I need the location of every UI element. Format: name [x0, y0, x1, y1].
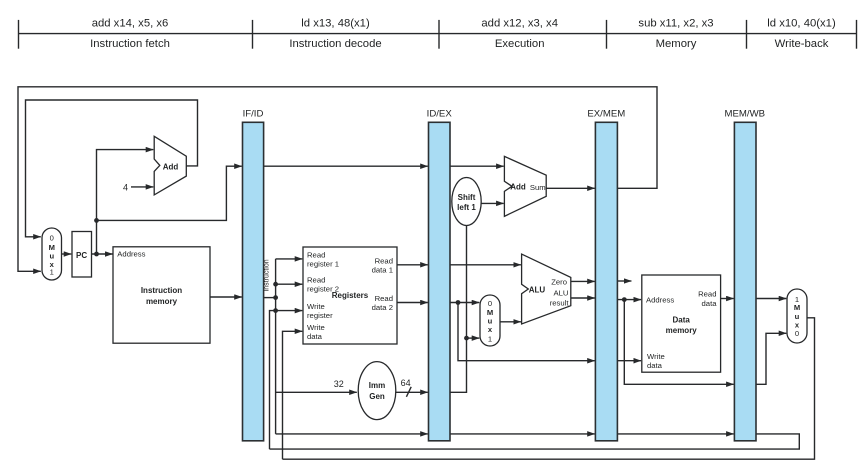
- wire instruction pass-along to ID/EX: [276, 433, 428, 435]
- svg-text:Zero: Zero: [551, 277, 567, 286]
- svg-text:Address: Address: [646, 296, 674, 305]
- svg-text:ld x13, 48(x1): ld x13, 48(x1): [301, 18, 370, 30]
- svg-text:memory: memory: [146, 297, 178, 306]
- wire Read data 2 down to EX/MEM write data: [458, 303, 595, 361]
- pipeline register EX/MEM: [587, 109, 625, 441]
- wire WB mux output bottom loop: [283, 318, 815, 459]
- svg-text:Write: Write: [647, 352, 665, 361]
- svg-text:64: 64: [401, 378, 411, 388]
- wire Read data 1 to ALU: [450, 264, 521, 266]
- svg-text:Add: Add: [163, 162, 179, 171]
- shift left 1 oval: [452, 178, 481, 226]
- junction node instr-rr2: [273, 282, 278, 287]
- wire mux to PC: [62, 253, 72, 255]
- adder Add (branch target): [504, 156, 546, 216]
- svg-text:sub x11, x2, x3: sub x11, x2, x3: [638, 18, 713, 30]
- wire pass-along ID/EX to EX/MEM: [450, 433, 595, 435]
- wire instruction memory to IF/ID: [210, 296, 242, 298]
- svg-text:Instruction: Instruction: [141, 286, 182, 295]
- pipeline register IF/ID: [243, 109, 264, 441]
- wire branch Add Sum to EX/MEM: [546, 187, 595, 189]
- header stage labels: [90, 38, 829, 50]
- svg-text:data: data: [702, 299, 718, 308]
- svg-text:Read: Read: [307, 250, 325, 259]
- wire ALU result to data memory address: [617, 299, 641, 301]
- mux M2 (ALU operand select): [480, 295, 500, 346]
- svg-text:0: 0: [795, 329, 799, 338]
- svg-text:4: 4: [123, 183, 128, 193]
- svg-text:data 2: data 2: [372, 303, 393, 312]
- junction node instr-wreg: [273, 308, 278, 313]
- wire PC+4 loop (Add output to PC mux input 0): [26, 100, 198, 237]
- wire write data EX/MEM to data memory: [617, 360, 641, 362]
- header instruction labels: [92, 18, 836, 30]
- svg-text:Read: Read: [307, 276, 325, 285]
- wire PC row IF/ID to ID/EX: [264, 165, 428, 167]
- svg-text:Gen: Gen: [369, 392, 385, 401]
- instruction memory box: [113, 247, 210, 343]
- wire ALU result bypass to MEM/WB: [624, 300, 733, 385]
- wire Read data 2 to ALU mux input 0: [450, 302, 479, 304]
- svg-text:add x14, x5, x6: add x14, x5, x6: [92, 18, 169, 30]
- wire data memory read data to MEM/WB: [721, 298, 734, 300]
- wire branch-target feedback (EX/MEM to PC mux input 1): [18, 87, 657, 271]
- wire immediate to ALU mux input 1: [467, 337, 480, 339]
- svg-text:ALU: ALU: [529, 286, 546, 295]
- svg-text:data: data: [647, 361, 663, 370]
- wire PC vertical to Add input: [97, 150, 154, 254]
- wire to Read register 2: [276, 283, 303, 285]
- svg-text:Instruction fetch: Instruction fetch: [90, 38, 170, 50]
- width slash 64: [406, 387, 411, 397]
- svg-text:Write-back: Write-back: [775, 38, 829, 50]
- svg-text:1: 1: [50, 267, 54, 276]
- registers box: [303, 247, 397, 344]
- svg-text:result: result: [550, 299, 570, 308]
- svg-text:Execution: Execution: [495, 38, 545, 50]
- junction node rd2-split: [456, 300, 461, 305]
- wire pass-along EX/MEM to MEM/WB: [617, 433, 733, 435]
- svg-text:left 1: left 1: [457, 203, 476, 212]
- svg-text:ALU: ALU: [554, 289, 569, 298]
- wire register number write-back bottom loop: [270, 434, 800, 449]
- svg-text:Address: Address: [117, 250, 145, 259]
- wire ALU result to EX/MEM: [571, 297, 595, 299]
- pipeline register MEM/WB: [725, 109, 766, 441]
- mux M1 (PC select): [42, 228, 62, 280]
- svg-text:ld x10, 40(x1): ld x10, 40(x1): [767, 18, 836, 30]
- wire PC to IF/ID: [97, 166, 242, 220]
- ALU: [522, 254, 571, 324]
- svg-text:Read: Read: [375, 256, 393, 265]
- wire Read data 1 to ID/EX: [397, 264, 428, 266]
- wire constant 4 to Add: [131, 186, 153, 188]
- svg-text:IF/ID: IF/ID: [243, 109, 264, 120]
- wire ALU zero to EX/MEM: [571, 280, 595, 282]
- adder Add (PC+4): [154, 136, 186, 195]
- svg-text:Add: Add: [510, 183, 526, 192]
- svg-text:Read: Read: [698, 290, 716, 299]
- svg-text:ID/EX: ID/EX: [427, 109, 453, 120]
- junction node instr-main: [273, 295, 278, 300]
- register PC: [72, 232, 92, 278]
- wire to Read register 1: [276, 258, 303, 260]
- data memory box: [642, 275, 721, 372]
- wire immediate up to shift and mux: [450, 226, 467, 393]
- wire instruction to Imm Gen: [276, 391, 357, 393]
- svg-text:MEM/WB: MEM/WB: [725, 109, 766, 120]
- svg-text:Imm: Imm: [369, 381, 385, 390]
- svg-text:add x12, x3, x4: add x12, x3, x4: [481, 18, 558, 30]
- wire read data to WB mux input 1: [756, 298, 786, 300]
- wire write data from write-back mux: [283, 331, 303, 459]
- wire Read data 2 to ID/EX: [397, 302, 428, 304]
- wire PC to instruction memory: [92, 253, 113, 255]
- svg-text:Instruction: Instruction: [264, 259, 271, 291]
- wire shift left 1 to branch Add: [481, 202, 504, 204]
- svg-text:Write: Write: [307, 302, 325, 311]
- svg-text:register: register: [307, 311, 333, 320]
- svg-text:1: 1: [488, 335, 492, 344]
- junction node PC-out: [94, 252, 99, 257]
- svg-text:PC: PC: [76, 251, 87, 260]
- svg-text:0: 0: [50, 234, 54, 243]
- wire zero stub out of EX/MEM: [617, 280, 631, 282]
- svg-text:Sum: Sum: [530, 183, 546, 192]
- wire ALU result to WB mux input 0: [756, 333, 786, 384]
- junction node imm-mux: [464, 336, 469, 341]
- svg-text:32: 32: [334, 379, 344, 389]
- wire PC row ID/EX to branch Add: [450, 165, 504, 167]
- svg-text:data 1: data 1: [372, 265, 393, 274]
- mux M3 (write-back select): [787, 289, 807, 343]
- svg-text:Registers: Registers: [332, 291, 369, 300]
- svg-text:data: data: [307, 332, 323, 341]
- svg-text:Write: Write: [307, 323, 325, 332]
- wire IF/ID instruction out: [264, 297, 276, 299]
- junction node PC-to-IFID: [94, 218, 99, 223]
- pipeline register ID/EX: [427, 109, 453, 441]
- header timeline axis: [19, 20, 857, 49]
- svg-text:Memory: Memory: [656, 38, 697, 50]
- wire ALU mux to ALU: [500, 321, 521, 323]
- wire instruction vertical bus: [275, 259, 277, 434]
- svg-text:Instruction decode: Instruction decode: [289, 38, 381, 50]
- svg-text:EX/MEM: EX/MEM: [587, 109, 625, 120]
- svg-text:Shift: Shift: [458, 193, 476, 202]
- svg-text:Data: Data: [673, 316, 691, 325]
- svg-text:memory: memory: [666, 326, 698, 335]
- svg-text:register 1: register 1: [307, 259, 339, 268]
- svg-text:0: 0: [488, 299, 492, 308]
- svg-text:M: M: [794, 303, 800, 312]
- junction node aluresult-split: [622, 297, 627, 302]
- wire Imm Gen to ID/EX: [396, 391, 428, 393]
- wire write register from write-back loop: [270, 311, 303, 450]
- svg-text:Read: Read: [375, 294, 393, 303]
- Imm Gen oval: [358, 362, 396, 420]
